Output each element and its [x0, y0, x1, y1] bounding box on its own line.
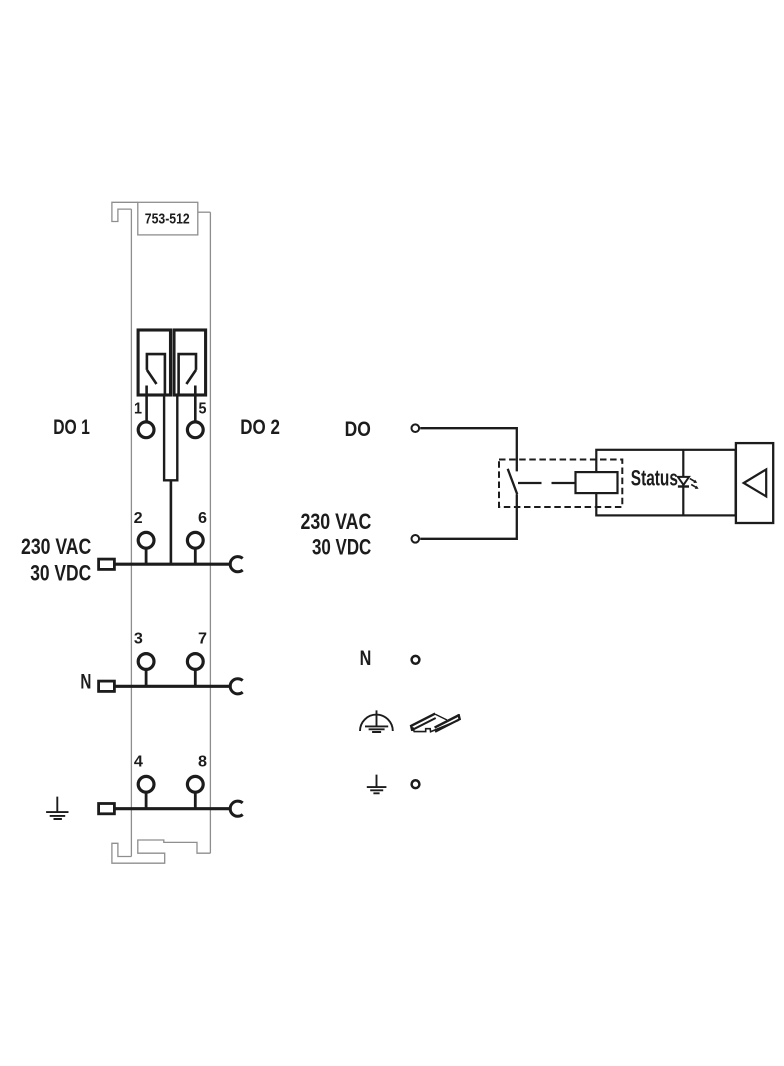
LED cathode bar [678, 485, 689, 487]
terminal circle 2 [138, 532, 154, 548]
terminal circle 5 [187, 422, 203, 438]
bus line row1 [114, 563, 231, 566]
wire circle2 to bus1 [145, 549, 148, 566]
svg-text:3: 3 [134, 631, 143, 648]
wire DO to switch [420, 428, 517, 471]
output block triangle [744, 469, 767, 496]
wire clamp5 to circle 5 [194, 386, 197, 422]
svg-text:N: N [360, 647, 372, 670]
center bar channel [164, 396, 177, 480]
svg-text:7: 7 [198, 631, 207, 648]
bus hook row2 [230, 679, 243, 694]
svg-text:Status: Status [631, 466, 678, 491]
LED branch wire [682, 450, 684, 516]
PE dome symbol [360, 715, 393, 731]
module top-left hook [112, 202, 138, 221]
svg-text:DO 1: DO 1 [53, 416, 90, 439]
wire circle8 to bus3 [194, 793, 197, 810]
svg-text:8: 8 [198, 754, 207, 771]
relay switch blade [508, 469, 518, 494]
cage clamp spring right [179, 354, 196, 395]
relay dashed box [499, 460, 622, 508]
N terminal circle right [412, 656, 420, 664]
power feed square row1 [99, 559, 115, 569]
svg-text:30 VDC: 30 VDC [30, 560, 91, 585]
cage clamp box right [174, 330, 206, 395]
terminal circle 1 [138, 422, 154, 438]
LED light arrow 2 [691, 485, 696, 488]
wire circle4 to bus3 [145, 793, 148, 810]
output block box [736, 443, 773, 523]
bus hook row3 [230, 801, 243, 816]
svg-text:753-512: 753-512 [145, 212, 190, 228]
terminal circle 8 [187, 776, 203, 792]
svg-text:1: 1 [134, 401, 142, 418]
terminal circle 6 [187, 532, 203, 548]
svg-text:230 VAC: 230 VAC [301, 509, 372, 534]
svg-text:DO: DO [345, 418, 371, 441]
svg-text:2: 2 [134, 510, 143, 527]
DO terminal circle [412, 424, 420, 432]
bus line row3 [114, 807, 231, 810]
svg-text:DO 2: DO 2 [240, 416, 280, 439]
module bottom DIN-rail foot [112, 840, 210, 863]
ground terminal circle right [412, 780, 420, 788]
label box 753-512 [138, 202, 198, 235]
svg-text:6: 6 [198, 510, 207, 527]
wire clamp1 to circle 1 [145, 386, 148, 422]
ground symbol left [46, 797, 68, 819]
terminal circle 4 [138, 776, 154, 792]
svg-text:N: N [80, 671, 91, 694]
ground symbol right [367, 775, 387, 794]
module outline right edge [209, 212, 211, 853]
status box [596, 450, 735, 516]
terminal circle 7 [187, 654, 203, 670]
wire bar to bus1 [170, 480, 173, 563]
relay coil K1 [576, 472, 618, 493]
power feed square row3 [99, 804, 115, 814]
power feed square row2 [99, 681, 115, 691]
mechanical link dashes [518, 482, 576, 484]
LED diode triangle [678, 477, 689, 485]
wire circle3 to bus2 [145, 670, 148, 687]
terminal circle 3 [138, 654, 154, 670]
cage clamp box left [138, 330, 170, 395]
230VAC terminal circle [412, 535, 420, 543]
module outline left edge [130, 209, 132, 856]
bus hook row1 [230, 557, 243, 572]
cage clamp spring left [147, 354, 165, 395]
wire 230VAC to switch [420, 494, 517, 539]
wire circle7 to bus2 [194, 670, 197, 687]
bus line row2 [114, 685, 231, 688]
module top-right connector line [198, 211, 211, 213]
svg-text:30 VDC: 30 VDC [312, 535, 371, 560]
wire circle6 to bus1 [194, 549, 197, 566]
carrier rail 3D icon [411, 714, 460, 732]
svg-text:5: 5 [199, 401, 207, 418]
svg-text:4: 4 [134, 754, 143, 771]
svg-text:230 VAC: 230 VAC [21, 534, 91, 559]
LED light arrow 1 [690, 479, 695, 482]
